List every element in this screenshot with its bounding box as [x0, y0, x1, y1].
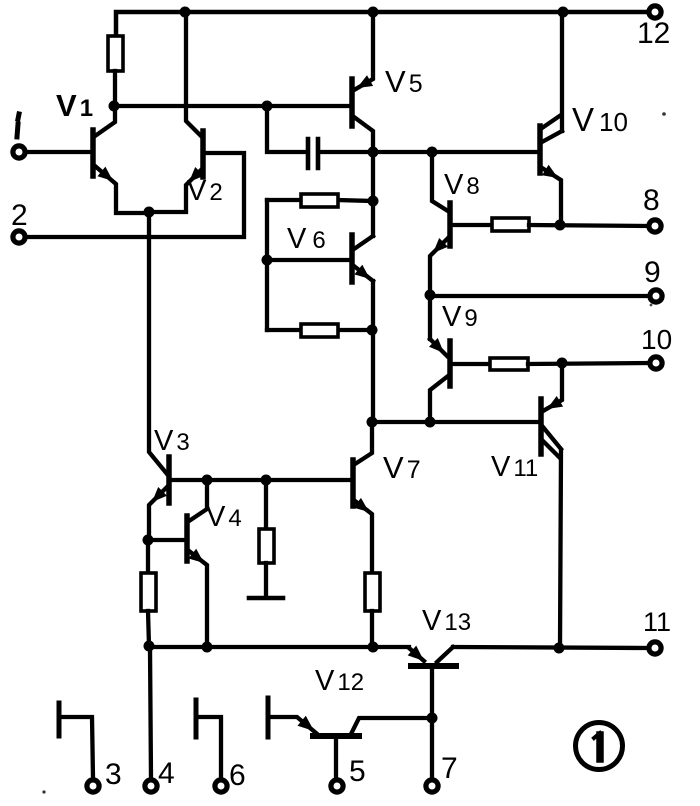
label 1 — [17, 114, 19, 137]
transistor V6 base bar — [349, 235, 355, 282]
svg-text:5: 5 — [349, 755, 366, 788]
wire to pin 9 — [430, 294, 648, 298]
arrow V1 emitter — [98, 167, 114, 181]
wire V7 emitter — [355, 501, 372, 573]
resistor R4 — [492, 218, 529, 231]
arrow V10 collector — [542, 165, 558, 178]
arrow V9 emitter — [429, 338, 444, 353]
wire R8 bottom — [148, 611, 149, 646]
wire cap right to V10 base — [320, 150, 538, 154]
node V1 collector — [109, 101, 120, 112]
node V7 collector — [367, 417, 378, 428]
transistor V7 base bar — [350, 460, 356, 506]
resistor R7 below V7 — [365, 573, 380, 611]
svg-text:11: 11 — [643, 607, 671, 637]
transistor V9 base bar — [447, 341, 453, 386]
svg-text:12: 12 — [637, 17, 670, 50]
ground bar — [249, 596, 283, 601]
wire cap left — [267, 106, 305, 152]
resistor R5 — [490, 358, 528, 370]
svg-text:V12: V12 — [315, 665, 364, 697]
arrow V12 emitter — [298, 716, 315, 731]
svg-text:8: 8 — [643, 184, 660, 217]
svg-text:6: 6 — [229, 759, 246, 792]
wire V13 collector diag — [437, 647, 453, 662]
wire V10 collector — [542, 168, 561, 225]
wire V6 left rail — [265, 200, 269, 330]
wire V5 emitter up — [354, 12, 373, 90]
wire V4 collector — [189, 482, 207, 521]
node R6 top — [261, 475, 272, 486]
figure number 1 — [596, 735, 604, 759]
terminal 9 — [650, 290, 662, 302]
arrow V2 emitter — [189, 167, 204, 182]
capacitor C1 plates — [308, 139, 318, 168]
transistor V10 base bar — [537, 126, 543, 173]
wire R7 bottom — [370, 611, 374, 646]
node V11 emitter rail — [554, 643, 565, 654]
resistor R1 top-left — [108, 36, 123, 71]
wire R8 top — [146, 541, 150, 573]
transistor V12 base bar — [313, 733, 359, 739]
wire pin 7 — [430, 720, 434, 778]
wire V1 emitter — [95, 166, 147, 213]
wire V7 collector lead — [355, 422, 372, 464]
node R2-top — [368, 196, 379, 207]
figure number circle — [576, 723, 623, 770]
transistor V11 base bar — [538, 399, 544, 454]
wire V8 collector — [432, 152, 448, 211]
arrow V13 emitter — [408, 646, 424, 661]
wire V3 emitter — [149, 487, 167, 539]
transistor V5 base bar — [349, 79, 355, 126]
svg-text:2: 2 — [11, 199, 28, 232]
wire R6 top — [264, 480, 268, 529]
transistor V1 base bar — [90, 130, 96, 176]
node V1-V2 emitters — [144, 207, 155, 218]
wire V3-V7 base line — [171, 478, 351, 482]
wire V2 base to pin 2 — [27, 153, 244, 237]
wire V4 emitter — [189, 551, 207, 646]
svg-text:V2: V2 — [187, 175, 223, 207]
svg-text:10: 10 — [641, 324, 672, 355]
svg-text:4: 4 — [158, 757, 175, 790]
wire V7 collector node to V11 base — [372, 420, 539, 424]
wire V9 base to R5 — [452, 362, 490, 366]
wire V10 emitter double stroke — [542, 115, 562, 142]
node R7 rail — [368, 642, 379, 653]
transistor V8 base bar — [447, 203, 453, 246]
wire R4 to pin 8 — [529, 225, 647, 226]
substrate bar V12 — [266, 698, 271, 737]
terminal 11 — [649, 642, 661, 654]
svg-text:V5: V5 — [385, 64, 423, 99]
wire tail to V3 — [149, 212, 167, 474]
terminal 5 — [331, 780, 343, 792]
svg-text:V3: V3 — [154, 425, 190, 457]
wire pin 6 — [198, 717, 221, 778]
wire V2 collector — [186, 12, 201, 136]
node rail left — [144, 641, 155, 652]
svg-text:V13: V13 — [422, 605, 471, 637]
node pin10-V11 — [557, 358, 568, 369]
wire pin 3 — [61, 717, 93, 778]
node V6 base tap — [262, 255, 273, 266]
arrow V5 emitter — [357, 75, 373, 88]
node V5-cap — [368, 147, 379, 158]
wire V10 emitter vertical — [560, 12, 564, 131]
terminal 7 — [426, 780, 438, 792]
wire V12 emitter — [270, 717, 316, 733]
wire V6 emitter — [354, 266, 373, 281]
wire V9 emitter — [430, 339, 447, 356]
wire V11 emitter vertical — [560, 450, 561, 648]
node rail-V2 — [180, 7, 191, 18]
wire V13 base — [430, 669, 434, 716]
node R3-bottom — [367, 325, 378, 336]
terminal 3 — [87, 780, 99, 792]
node V4 emitter rail — [202, 642, 213, 653]
wire mid vertical lower — [371, 281, 375, 422]
substrate bar pin3 — [57, 703, 62, 736]
resistor R6 — [259, 529, 274, 563]
wire V9 collector — [430, 376, 448, 421]
wire R6 bottom — [264, 563, 268, 597]
resistor R3 — [301, 324, 338, 337]
node V9-V7 line — [425, 417, 436, 428]
wire V5 collector down — [354, 117, 373, 152]
arrow V11 collector — [547, 396, 563, 409]
transistor V2 base bar — [200, 131, 206, 177]
node rail-V5 — [368, 7, 379, 18]
resistor R8 — [141, 573, 156, 611]
svg-text:V9: V9 — [442, 301, 478, 333]
node rail-V10 — [558, 7, 569, 18]
svg-text:3: 3 — [105, 758, 122, 791]
terminal 12 — [649, 6, 661, 18]
node V4 collector — [202, 475, 213, 486]
svg-text:V4: V4 — [206, 501, 242, 533]
wire V12 base to pin 5 — [334, 740, 338, 778]
wire V1 base — [27, 150, 91, 154]
wire V4 base — [148, 538, 185, 542]
terminal 4 — [145, 780, 157, 792]
wire V1 collector — [95, 106, 115, 136]
terminal 6 — [215, 780, 227, 792]
wire V8 base to R4 — [452, 223, 492, 227]
wire V11 collector — [543, 365, 562, 411]
wire top supply rail to pin 12 — [116, 12, 648, 36]
node cap tap — [262, 101, 273, 112]
wire mid vertical upper — [371, 152, 375, 236]
wire pin 4 — [150, 648, 151, 778]
arrow V4 emitter — [188, 549, 204, 563]
svg-text:V7: V7 — [383, 450, 421, 485]
svg-text:9: 9 — [644, 256, 661, 289]
arrow V6 emitter — [354, 265, 370, 279]
svg-text:V10: V10 — [572, 101, 628, 138]
wire V13 emitter diag — [409, 648, 424, 661]
transistor V4 base bar — [184, 516, 190, 561]
wire V11 emitter double stroke — [543, 427, 561, 457]
svg-text:7: 7 — [441, 752, 458, 785]
wire V13base-V12 link — [352, 718, 432, 732]
substrate bar pin6 — [194, 700, 199, 737]
wire V8 emitter — [430, 238, 448, 339]
node V3-V4 — [143, 535, 154, 546]
svg-text:V11: V11 — [491, 451, 538, 483]
wire R1 bottom — [113, 71, 117, 104]
wire V6 base — [267, 258, 350, 262]
arrow V3 emitter — [152, 487, 167, 502]
transistor V3 base bar — [166, 457, 172, 503]
wire R3 leads — [267, 328, 372, 332]
arrow V7 emitter — [353, 498, 369, 512]
arrow V8 emitter — [433, 238, 448, 253]
wire bottom rail left — [149, 645, 409, 649]
node pin8-V10 — [555, 220, 566, 231]
node V8-V9 pin9 — [425, 290, 436, 301]
wire R5 to pin 10 — [528, 363, 648, 364]
terminal 1 — [13, 146, 25, 158]
wire bottom rail right — [453, 647, 648, 648]
terminal 10 — [650, 357, 662, 369]
svg-text:V8: V8 — [444, 169, 480, 201]
speckle — [42, 790, 45, 793]
wire R2 leads — [267, 200, 373, 201]
terminal 2 — [13, 231, 25, 243]
wire V6 collector — [354, 236, 373, 249]
wire node line y106 — [114, 104, 350, 108]
node V13 base — [427, 713, 438, 724]
transistor V13 base bar — [411, 663, 456, 669]
node V8 tap — [427, 147, 438, 158]
terminal 8 — [649, 220, 661, 232]
resistor R2 — [301, 194, 338, 207]
wire V2 emitter — [151, 170, 201, 212]
